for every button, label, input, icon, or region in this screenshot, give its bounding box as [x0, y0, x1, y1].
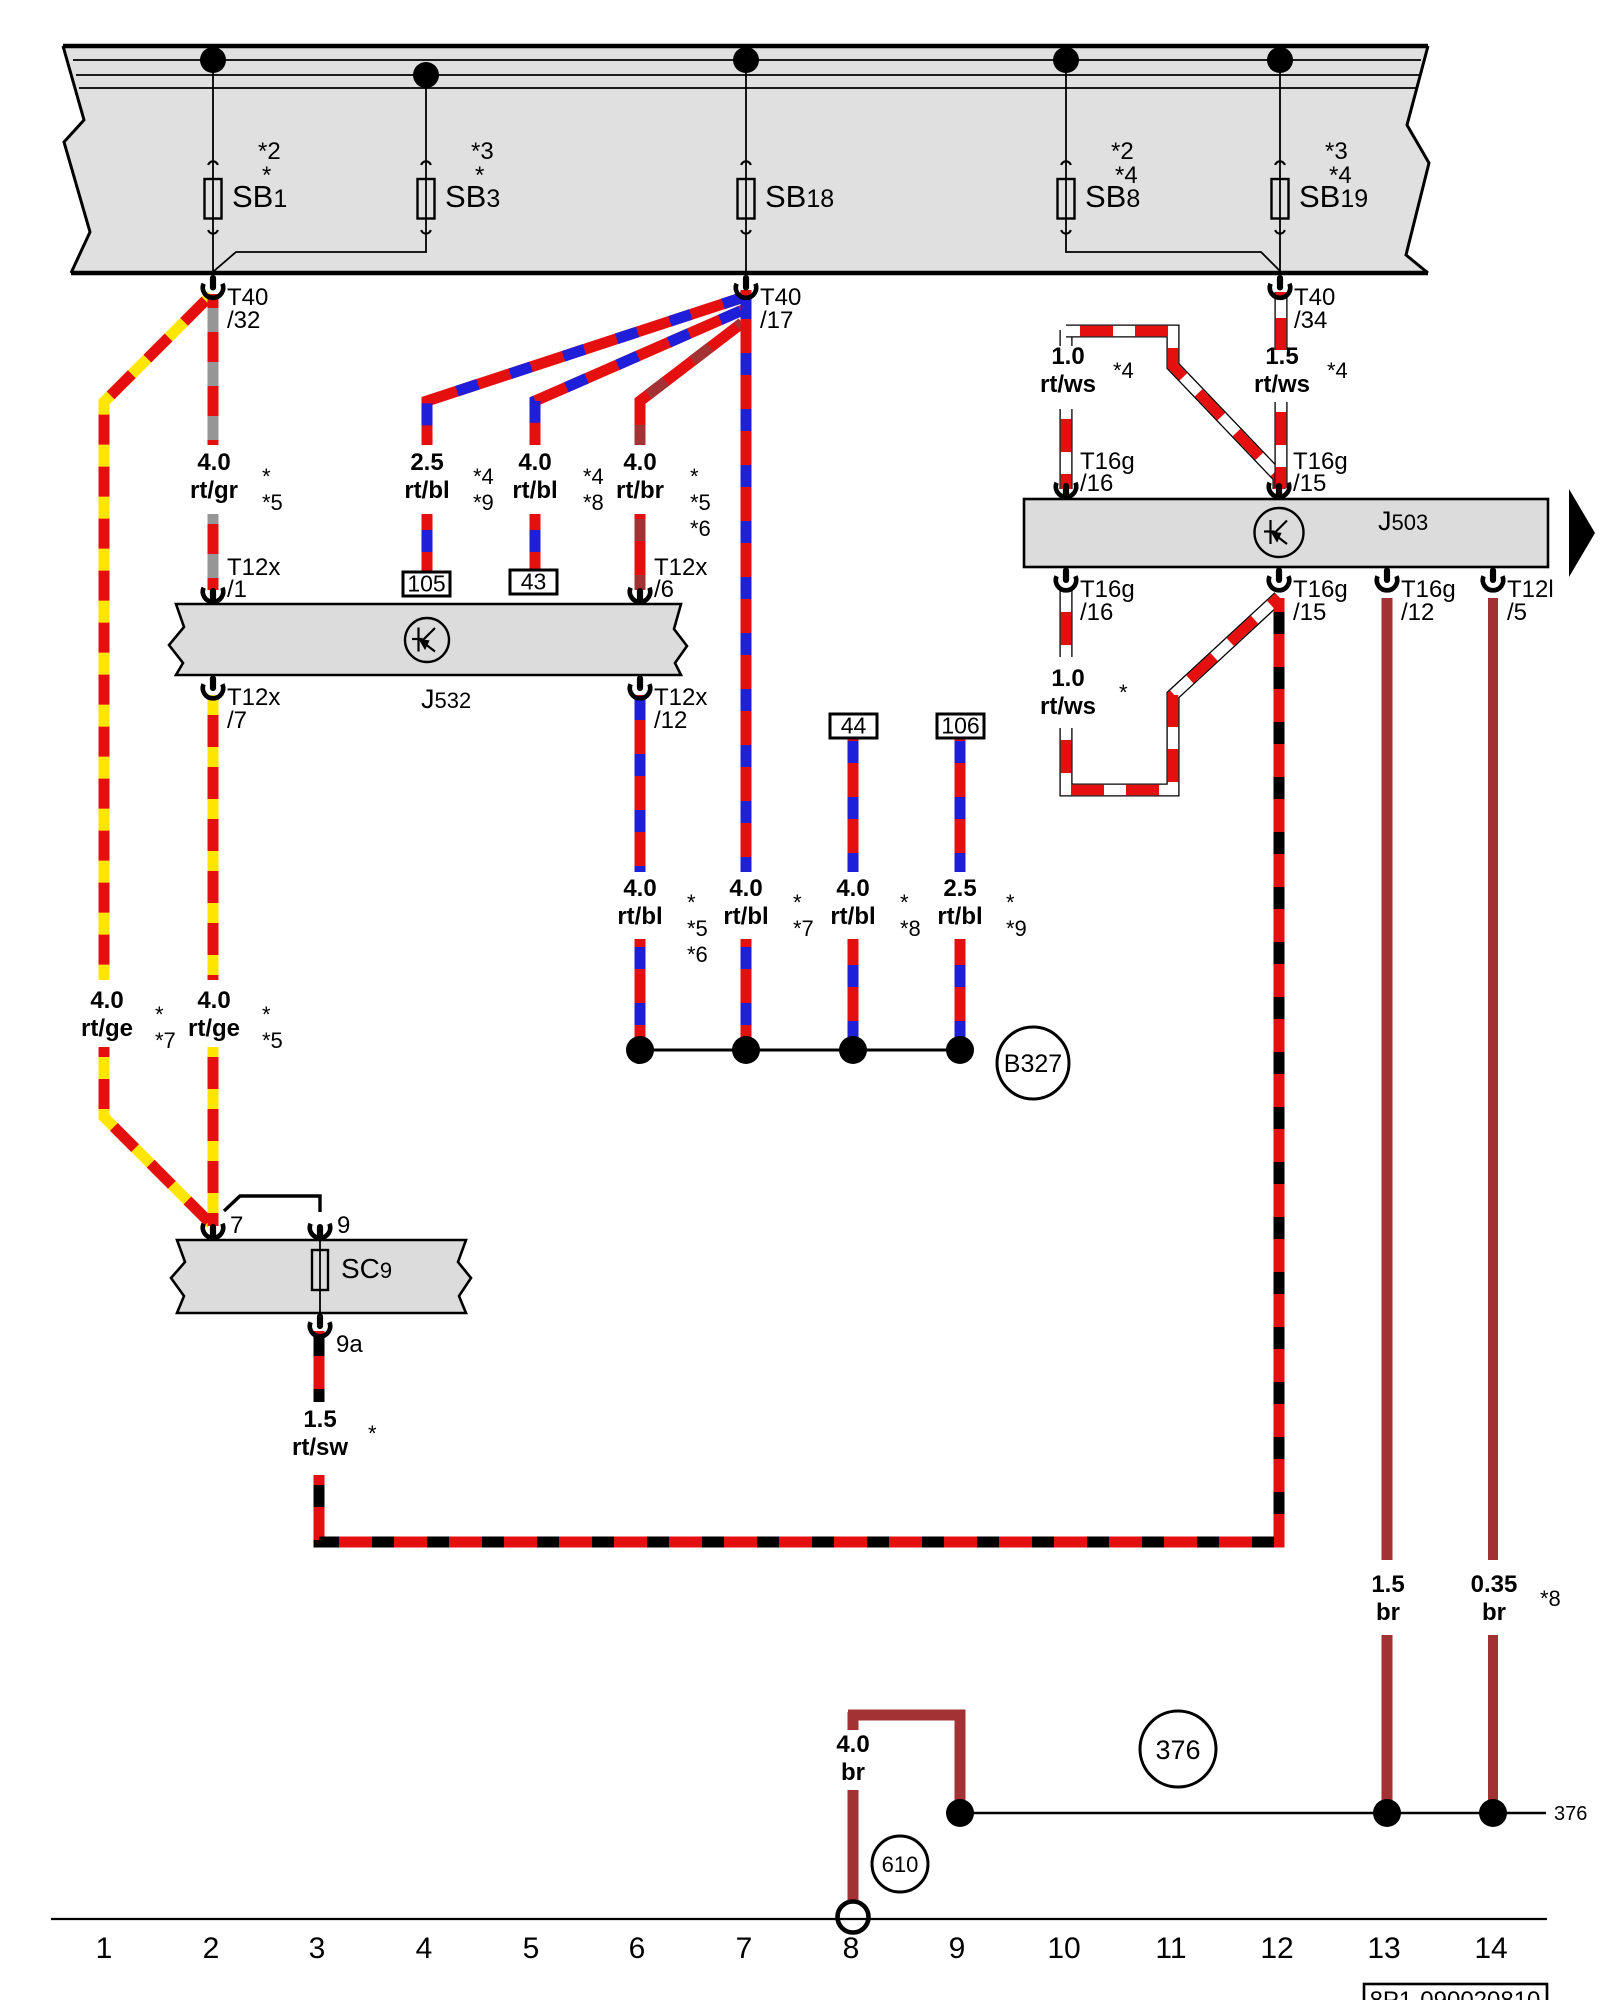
node circle 610	[872, 1836, 928, 1892]
junction dot 376-c	[1479, 1799, 1507, 1827]
track baseline	[51, 1918, 1547, 1920]
svg-text:/15: /15	[1293, 470, 1326, 497]
ground point (open circle on track 8)	[838, 1902, 869, 1933]
junction dot 2	[732, 1036, 760, 1064]
svg-text:rt/ge: rt/ge	[81, 1015, 133, 1042]
svg-text:*: *	[1006, 890, 1015, 915]
wire 1.0 rt/ws loop from J503 T16g/16 bottom to T16g/15 bottom	[1059, 590, 1072, 657]
svg-text:10: 10	[1047, 1932, 1080, 1965]
wire 4.0 rt/ge from T40/32 to SC9 pin 7 (red/yellow, left)	[104, 295, 211, 980]
terminal T16g/16 (bottom)	[1063, 568, 1069, 584]
wire 4.0 rt/br from T40/17 to J532 T12x/6 (red/brown)	[640, 323, 742, 445]
svg-text:1.5: 1.5	[303, 1406, 336, 1433]
svg-text:376: 376	[1155, 1735, 1200, 1765]
wire 2.5 rt/bl from T40/17 to contact 105	[427, 297, 744, 445]
svg-text:J503: J503	[1378, 506, 1428, 536]
wire: SB8 collector to T40/34	[1066, 239, 1280, 271]
svg-text:3: 3	[309, 1932, 326, 1965]
svg-text:13: 13	[1367, 1932, 1400, 1965]
svg-text:8: 8	[843, 1932, 860, 1965]
svg-text:43: 43	[521, 569, 547, 595]
terminal T16g/12	[1384, 568, 1390, 584]
terminal T40/34	[1277, 275, 1283, 291]
svg-text:*4: *4	[473, 464, 494, 489]
svg-text:rt/bl: rt/bl	[830, 903, 875, 930]
svg-text:/16: /16	[1080, 599, 1113, 626]
svg-text:rt/ge: rt/ge	[188, 1015, 240, 1042]
svg-text:*4: *4	[1113, 358, 1134, 383]
svg-text:12: 12	[1260, 1932, 1293, 1965]
svg-text:1.5: 1.5	[1371, 1571, 1404, 1598]
svg-text:9a: 9a	[336, 1331, 363, 1358]
svg-text:106: 106	[941, 713, 979, 739]
svg-text:/15: /15	[1293, 599, 1326, 626]
svg-text:*9: *9	[473, 490, 494, 515]
svg-text:rt/bl: rt/bl	[937, 903, 982, 930]
svg-text:8P1-090020810: 8P1-090020810	[1370, 1987, 1541, 2000]
svg-text:B327: B327	[1004, 1050, 1062, 1078]
svg-text:4.0: 4.0	[836, 1731, 869, 1758]
bus line 1	[73, 59, 1421, 61]
contact box 44	[830, 714, 877, 738]
wire 4.0 br from ground 610 up to node 376 (brown)	[848, 1712, 859, 1730]
svg-text:*8: *8	[583, 490, 604, 515]
svg-text:4.0: 4.0	[623, 875, 656, 902]
svg-text:6: 6	[629, 1932, 646, 1965]
SC9 terminal 9a	[317, 1314, 323, 1330]
svg-text:*: *	[1119, 680, 1128, 705]
node circle 376	[1140, 1711, 1216, 1787]
wire 1.5 rt/sw from J503 T16g/15 bottom to SC9 pin 9a (red/black)	[319, 598, 1279, 1542]
svg-text:*5: *5	[262, 490, 283, 515]
svg-text:rt/ws: rt/ws	[1040, 371, 1096, 398]
svg-text:*: *	[690, 464, 699, 489]
svg-text:9: 9	[337, 1212, 350, 1239]
jumper wire between SC9 terminals 7 and 9	[224, 1196, 320, 1212]
svg-text:*3: *3	[1325, 138, 1348, 165]
svg-text:/16: /16	[1080, 470, 1113, 497]
svg-text:376: 376	[1554, 1803, 1587, 1825]
wire 4.0 rt/gr from T40/32 to J532 T12x/1 (red/grey)	[208, 294, 219, 445]
svg-text:/6: /6	[654, 576, 674, 603]
wire: SB1 down to terminal T40/32	[212, 239, 214, 274]
svg-text:2: 2	[203, 1932, 220, 1965]
svg-text:*7: *7	[155, 1028, 176, 1053]
wire 4.0 rt/bl from T40/17 to contact 43	[535, 309, 745, 445]
svg-text:/7: /7	[227, 707, 247, 734]
svg-text:SB18: SB18	[765, 179, 834, 214]
svg-text:14: 14	[1474, 1932, 1507, 1965]
control unit J532 (onboard supply control unit)	[169, 604, 687, 675]
svg-text:*: *	[475, 162, 484, 189]
svg-text:5: 5	[523, 1932, 540, 1965]
svg-text:44: 44	[841, 713, 867, 739]
svg-text:4.0: 4.0	[90, 987, 123, 1014]
J503 icon	[1255, 508, 1304, 557]
J532 icon	[405, 618, 449, 662]
svg-text:1.0: 1.0	[1051, 665, 1084, 692]
fuse holder SC9	[171, 1240, 471, 1313]
svg-text:11: 11	[1155, 1932, 1186, 1965]
continuation arrow	[1569, 489, 1595, 577]
wire: SB19 down to terminal T40/34	[1279, 239, 1281, 274]
SC9 terminal 7	[210, 1224, 216, 1240]
svg-text:*: *	[368, 1421, 377, 1446]
node line to B327	[640, 1049, 960, 1052]
svg-text:2.5: 2.5	[943, 875, 976, 902]
wire 1.5 br from J503 T16g/12 down to node 376 (brown)	[1382, 598, 1393, 1560]
terminal T16g/16 (top)	[1063, 483, 1069, 499]
terminal T16g/15 (bottom)	[1276, 568, 1282, 584]
wire 4.0 rt/bl from T40/17 down to node B327	[741, 290, 752, 872]
svg-text:rt/ws: rt/ws	[1254, 371, 1310, 398]
svg-text:*5: *5	[690, 490, 711, 515]
fuse SB19	[1279, 60, 1281, 239]
contact box 105	[403, 572, 450, 596]
svg-text:*4: *4	[1115, 162, 1138, 189]
svg-text:*4: *4	[583, 464, 604, 489]
wire: SB18 down to terminal T40/17	[745, 239, 747, 274]
svg-text:1.0: 1.0	[1051, 343, 1084, 370]
svg-text:9: 9	[949, 1932, 966, 1965]
svg-text:rt/gr: rt/gr	[190, 477, 238, 504]
terminal T40/32	[210, 275, 216, 291]
wire 1.5 rt/ws from T40/34 to J503 T16g/15 top	[1274, 292, 1287, 350]
svg-text:SB3: SB3	[445, 179, 500, 214]
SC9 terminal 9	[317, 1224, 323, 1240]
svg-text:4.0: 4.0	[836, 875, 869, 902]
svg-text:4.0: 4.0	[623, 449, 656, 476]
svg-text:2.5: 2.5	[410, 449, 443, 476]
svg-text:/17: /17	[760, 307, 793, 334]
terminal T12x/1	[210, 588, 216, 604]
svg-text:*5: *5	[262, 1028, 283, 1053]
svg-text:*4: *4	[1327, 358, 1348, 383]
junction dot 376-a	[946, 1799, 974, 1827]
wire 4.0 rt/bl from contact 44 down to node B327	[848, 737, 859, 872]
svg-text:*: *	[262, 464, 271, 489]
svg-text:*: *	[687, 890, 696, 915]
junction dot 3	[839, 1036, 867, 1064]
svg-text:*: *	[900, 890, 909, 915]
terminal T40/17	[743, 275, 749, 291]
node B327	[997, 1027, 1069, 1099]
svg-text:0.35: 0.35	[1471, 1571, 1518, 1598]
svg-text:*5: *5	[687, 916, 708, 941]
bus line 2	[76, 74, 1419, 76]
svg-text:*4: *4	[1329, 162, 1352, 189]
svg-text:4.0: 4.0	[197, 449, 230, 476]
junction dot 4	[946, 1036, 974, 1064]
svg-text:rt/bl: rt/bl	[617, 903, 662, 930]
svg-text:1.5: 1.5	[1265, 343, 1298, 370]
svg-text:*7: *7	[793, 916, 814, 941]
svg-text:*2: *2	[1111, 138, 1134, 165]
control unit J503 (control unit with display in dash panel insert)	[1024, 499, 1548, 567]
svg-text:rt/bl: rt/bl	[404, 477, 449, 504]
svg-text:4.0: 4.0	[518, 449, 551, 476]
svg-text:105: 105	[407, 571, 445, 597]
svg-text:*: *	[262, 162, 271, 189]
svg-text:/1: /1	[227, 576, 247, 603]
svg-text:*: *	[155, 1002, 164, 1027]
svg-text:/12: /12	[654, 707, 687, 734]
svg-text:SC9: SC9	[341, 1253, 392, 1284]
contact box 106	[937, 714, 984, 738]
fuse SB1	[212, 60, 214, 239]
svg-text:*: *	[262, 1002, 271, 1027]
part number box 8P1-090020810	[1364, 1984, 1547, 2000]
svg-text:rt/sw: rt/sw	[292, 1434, 348, 1461]
svg-text:rt/bl: rt/bl	[723, 903, 768, 930]
svg-text:7: 7	[230, 1212, 243, 1239]
fuse SB8	[1065, 60, 1067, 239]
svg-text:4: 4	[416, 1932, 433, 1965]
terminal T12x/7	[210, 676, 216, 692]
wire: SB3 collector to T40/32	[214, 239, 426, 271]
svg-text:J532: J532	[421, 684, 471, 714]
fuse panel band (battery/fuse box)	[63, 46, 1429, 273]
svg-text:610: 610	[882, 1852, 919, 1877]
node line 376	[960, 1812, 1546, 1814]
junction dot 1	[626, 1036, 654, 1064]
terminal T12x/12	[637, 676, 643, 692]
svg-text:br: br	[1376, 1599, 1400, 1626]
terminal T12l/5	[1490, 568, 1496, 584]
svg-text:*8: *8	[900, 916, 921, 941]
svg-text:/34: /34	[1294, 307, 1327, 334]
svg-text:*6: *6	[690, 516, 711, 541]
bus line 3	[79, 87, 1417, 89]
svg-text:br: br	[1482, 1599, 1506, 1626]
junction dot 376-b	[1373, 1799, 1401, 1827]
svg-text:rt/bl: rt/bl	[512, 477, 557, 504]
wire 0.35 br from J503 T12l/5 down to node 376 (brown)	[1488, 598, 1498, 1560]
svg-text:rt/br: rt/br	[616, 477, 664, 504]
svg-text:7: 7	[736, 1932, 753, 1965]
svg-text:/32: /32	[227, 307, 260, 334]
wire 4.0 rt/ge from J532 T12x/7 to SC9 pin 7 (red/yellow)	[208, 695, 219, 980]
fuse SB3	[425, 75, 427, 239]
wire 4.0 rt/bl from J532 T12x/12 down to node B327	[635, 695, 646, 872]
svg-text:*3: *3	[471, 138, 494, 165]
svg-text:*2: *2	[258, 138, 281, 165]
contact box 43	[510, 570, 557, 594]
svg-text:*6: *6	[687, 942, 708, 967]
svg-text:rt/ws: rt/ws	[1040, 693, 1096, 720]
terminal T16g/15 (top)	[1276, 483, 1282, 499]
svg-text:4.0: 4.0	[197, 987, 230, 1014]
svg-text:*9: *9	[1006, 916, 1027, 941]
wire 1.0 rt/ws loop from J503 T16g/16 top to T16g/15 top (red/white)	[1059, 409, 1072, 489]
svg-text:/5: /5	[1507, 599, 1527, 626]
svg-text:4.0: 4.0	[729, 875, 762, 902]
svg-text:1: 1	[96, 1932, 113, 1965]
wire 2.5 rt/bl from contact 106 down to node B327	[955, 737, 966, 872]
svg-text:br: br	[841, 1759, 865, 1786]
fuse SB18	[745, 60, 747, 239]
svg-text:SB1: SB1	[232, 179, 287, 214]
svg-text:*8: *8	[1540, 1586, 1561, 1611]
svg-text:*: *	[793, 890, 802, 915]
terminal T12x/6	[637, 588, 643, 604]
svg-text:/12: /12	[1401, 599, 1434, 626]
SC9 fuse symbol	[319, 1240, 321, 1313]
